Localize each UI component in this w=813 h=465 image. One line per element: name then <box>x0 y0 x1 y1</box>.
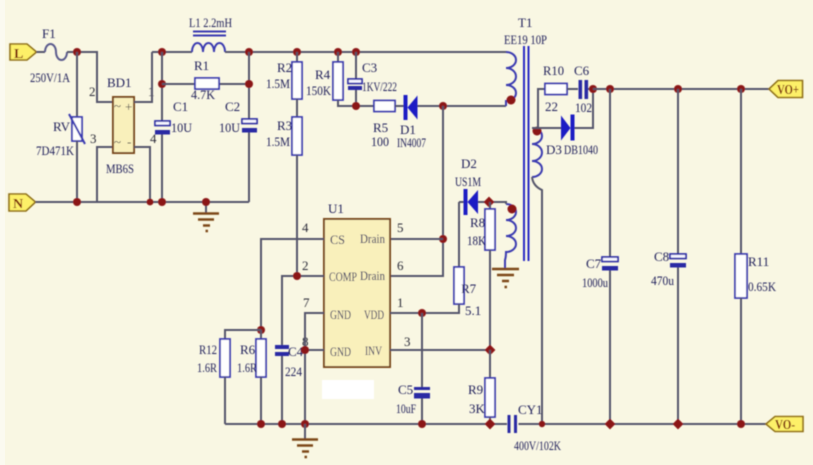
wire R11 lower <box>740 298 742 424</box>
svg-text:3K: 3K <box>469 401 486 416</box>
junction VDD/C5 <box>418 309 426 317</box>
wire top rail left <box>152 51 192 53</box>
capacitor C3 <box>348 52 397 106</box>
svg-text:2: 2 <box>89 84 96 99</box>
wire R8 upper <box>489 202 491 209</box>
junction C6/D3 <box>589 85 597 93</box>
svg-text:1.6R: 1.6R <box>197 360 217 375</box>
junction COMP/R3 <box>293 272 301 280</box>
svg-text:~: ~ <box>114 98 121 113</box>
ground control <box>292 424 318 457</box>
svg-text:18K: 18K <box>467 233 487 248</box>
svg-text:U1: U1 <box>328 201 344 216</box>
svg-text:R12: R12 <box>199 342 217 357</box>
wire D2 to aux <box>478 202 506 204</box>
resistor R8 <box>467 209 495 250</box>
junction C2/R1 <box>245 80 253 88</box>
pin number 1 <box>148 84 155 99</box>
transformer T1 labels <box>504 15 547 47</box>
junction INV/R9 <box>485 345 496 356</box>
wire C7 lower <box>609 271 611 425</box>
svg-text:1: 1 <box>397 295 404 310</box>
svg-text:470u: 470u <box>651 273 674 288</box>
capacitor C1 <box>155 99 193 135</box>
bridge BD1 <box>106 75 134 176</box>
junction rail/gnd <box>301 420 309 428</box>
chip U1 <box>324 201 390 367</box>
wire D1 to primary <box>418 105 507 107</box>
svg-text:N: N <box>13 197 23 212</box>
svg-text:US1M: US1M <box>455 174 481 189</box>
svg-text:4: 4 <box>302 220 309 235</box>
wire VO+ rail <box>593 88 769 90</box>
svg-text:3: 3 <box>90 131 97 146</box>
svg-text:INV: INV <box>365 343 382 358</box>
svg-text:0.65K: 0.65K <box>748 279 777 294</box>
transformer T1 primary winding <box>506 52 516 106</box>
junction rail/R9 <box>485 419 496 430</box>
svg-text:3: 3 <box>404 334 411 349</box>
port L <box>10 44 37 62</box>
svg-text:R1: R1 <box>194 58 209 73</box>
wire CS path <box>261 239 324 330</box>
pin number 3 <box>90 131 97 146</box>
svg-text:1KV/222: 1KV/222 <box>362 79 397 94</box>
svg-text:C5: C5 <box>398 382 413 397</box>
svg-text:C3: C3 <box>362 60 377 75</box>
wire C8 upper <box>677 89 679 254</box>
junction D2/R8 <box>484 197 495 208</box>
svg-text:IN4007: IN4007 <box>397 135 426 150</box>
junction rail/secondary <box>539 421 545 427</box>
junction rail/C3 <box>352 48 360 56</box>
wire C2 upper <box>248 52 250 119</box>
svg-text:EE19 10P: EE19 10P <box>504 32 547 47</box>
pin number 1 U1 <box>397 295 404 310</box>
wire BD1 pin3 <box>97 147 113 202</box>
wire R6 lower <box>260 377 262 424</box>
wire top rail mid <box>225 51 506 53</box>
resistor R9 <box>468 378 495 417</box>
junction drain node <box>439 102 447 110</box>
svg-text:L1 2.2mH: L1 2.2mH <box>189 15 232 30</box>
svg-text:4.7K: 4.7K <box>191 87 216 102</box>
resistor R10 <box>543 63 578 114</box>
ground primary input <box>193 202 219 231</box>
resistor R5 <box>371 101 404 150</box>
wire GND pin7 path <box>305 313 324 424</box>
varistor RV <box>36 114 85 158</box>
pin number 4 <box>150 131 157 146</box>
wire RV bottom <box>76 141 78 202</box>
svg-text:102: 102 <box>575 100 592 115</box>
resistor R2 <box>266 52 302 99</box>
wire snubber riser <box>538 89 545 128</box>
wire C5 upper <box>421 313 423 387</box>
svg-text:VDD: VDD <box>364 307 384 322</box>
svg-text:10uF: 10uF <box>396 401 416 416</box>
capacitor C8 <box>651 249 686 288</box>
junction rail/C7 <box>606 85 614 93</box>
capacitor C4 <box>275 344 304 379</box>
wire pin5 stub <box>390 238 443 240</box>
wire fuse to BD1 pin2 <box>67 52 113 102</box>
junction rail/R6 <box>257 420 265 428</box>
wire R7 to VDD <box>390 304 459 313</box>
resistor R3 <box>266 117 302 155</box>
junction drain pin5 <box>439 235 447 243</box>
svg-text:D2: D2 <box>461 156 477 171</box>
svg-text:Drain: Drain <box>360 231 385 246</box>
svg-text:R9: R9 <box>468 382 483 397</box>
svg-text:R11: R11 <box>748 254 769 269</box>
fuse F1 <box>30 26 71 85</box>
wire D3 to rail <box>575 89 594 128</box>
diode D2 <box>455 156 481 215</box>
svg-text:10U: 10U <box>219 120 241 135</box>
port N <box>9 194 36 212</box>
svg-text:R10: R10 <box>543 63 564 78</box>
wire R9 lower <box>489 417 491 424</box>
pin number 7 U1 <box>303 295 310 310</box>
transformer T1 secondary winding <box>532 128 542 177</box>
junction CS/R6 <box>257 326 265 334</box>
svg-text:224: 224 <box>285 364 302 379</box>
svg-text:C8: C8 <box>654 249 669 264</box>
wire N bottom row <box>36 201 250 203</box>
svg-text:F1: F1 <box>42 26 56 41</box>
wire secondary return <box>532 177 542 424</box>
wire C5 lower <box>421 399 423 425</box>
svg-text:7D471K: 7D471K <box>36 143 75 158</box>
wire bottom rail secondary <box>519 423 767 425</box>
svg-text:~: ~ <box>114 134 121 149</box>
junction rail2/R11 <box>737 420 745 428</box>
pin number 2 U1 <box>302 258 309 273</box>
pin number 6 U1 <box>397 258 404 273</box>
svg-text:BD1: BD1 <box>107 75 132 90</box>
svg-text:R5: R5 <box>373 120 388 135</box>
wire R7 riser <box>458 202 460 267</box>
wire D2 row left <box>459 201 464 203</box>
capacitor C6 <box>574 63 593 115</box>
svg-text:R7: R7 <box>461 281 477 296</box>
svg-text:+: + <box>125 99 132 114</box>
wire R12 lower <box>224 377 226 424</box>
wire C7 upper <box>609 89 611 257</box>
svg-text:D3: D3 <box>546 142 562 157</box>
wire bottom rail primary <box>225 423 507 425</box>
junction C3/snubber row <box>352 102 360 110</box>
junction rail/R11 <box>737 85 745 93</box>
svg-text:1.6R: 1.6R <box>237 360 257 375</box>
svg-text:R3: R3 <box>277 118 292 133</box>
pin number 3 U1 <box>404 334 411 349</box>
port VO- <box>766 417 803 434</box>
svg-text:VO+: VO+ <box>777 83 799 98</box>
port VO+ <box>769 81 803 99</box>
svg-text:C7: C7 <box>586 256 602 271</box>
resistor R4 <box>306 52 343 100</box>
transformer T1 aux winding <box>505 204 516 268</box>
wire C1 branch upper <box>161 52 163 121</box>
junction ground/bottom <box>202 198 210 206</box>
junction rail2/C7 <box>605 419 616 430</box>
pin number 5 U1 <box>397 220 404 235</box>
wire R9 upper <box>489 350 491 378</box>
svg-text:400V/102K: 400V/102K <box>514 438 561 453</box>
svg-text:CS: CS <box>330 232 345 247</box>
polarity dot aux <box>508 205 517 214</box>
wire COMP row <box>282 276 324 345</box>
capacitor C5 <box>396 382 430 416</box>
svg-text:1.5M: 1.5M <box>266 134 290 149</box>
inductor L1 <box>189 15 232 52</box>
pin number 2 <box>89 84 96 99</box>
polarity dot primary <box>507 96 516 105</box>
pin number 8 U1 <box>302 334 309 349</box>
svg-text:T1: T1 <box>518 15 532 30</box>
svg-text:C6: C6 <box>574 63 590 78</box>
resistor R6 <box>237 330 266 377</box>
wire BD1 pin4 drop <box>134 147 150 202</box>
wire drain vertical <box>390 106 443 276</box>
svg-text:C2: C2 <box>225 99 240 114</box>
svg-text:1.5M: 1.5M <box>266 76 290 91</box>
capacitor C7 <box>582 256 618 290</box>
svg-text:R8: R8 <box>470 215 485 230</box>
junction rail/C1 <box>158 48 166 56</box>
svg-text:6: 6 <box>397 258 404 273</box>
wire D3 row <box>532 127 561 129</box>
svg-text:5.1: 5.1 <box>465 303 481 318</box>
wire R4 bottom <box>338 100 374 106</box>
wire R3 to COMP <box>296 155 298 276</box>
white patch <box>322 380 374 399</box>
wire RV top <box>76 52 78 117</box>
wire R8 to INV <box>489 250 491 350</box>
capacitor C2 <box>219 99 257 135</box>
diode D1 <box>397 95 426 150</box>
wire C8 lower <box>677 268 679 425</box>
svg-text:10U: 10U <box>171 120 193 135</box>
wire BD1 pin1 riser <box>134 52 152 102</box>
svg-text:COMP: COMP <box>329 269 357 284</box>
diode D3 <box>546 115 598 158</box>
svg-text:5: 5 <box>397 220 404 235</box>
junction rail/R2 <box>293 48 301 56</box>
wire R11 upper <box>740 89 742 254</box>
svg-text:DB1040: DB1040 <box>564 142 598 157</box>
svg-text:Drain: Drain <box>360 268 385 283</box>
junction rail/R4 <box>334 48 342 56</box>
svg-text:GND: GND <box>330 344 351 359</box>
wire GND pin8 stub <box>305 349 324 351</box>
junction C1/R1 <box>158 80 166 88</box>
svg-text:22: 22 <box>545 99 558 114</box>
wire INV row <box>390 349 490 351</box>
resistor R12 <box>197 339 230 377</box>
svg-text:MB6S: MB6S <box>106 161 134 176</box>
svg-text:RV: RV <box>53 119 71 134</box>
svg-text:250V/1A: 250V/1A <box>30 70 71 85</box>
svg-text:150K: 150K <box>306 83 332 98</box>
svg-text:VO-: VO- <box>775 418 795 433</box>
wire C2 bottom <box>248 133 250 203</box>
svg-text:R6: R6 <box>240 342 256 357</box>
junction rail/C4 <box>278 420 286 428</box>
transformer T1 core <box>524 46 529 261</box>
svg-text:-: - <box>127 134 131 149</box>
junction C1/bottom <box>158 198 166 206</box>
polarity dot secondary <box>533 127 542 136</box>
junction N/RV <box>73 198 81 206</box>
svg-text:R2: R2 <box>277 60 292 75</box>
svg-text:CY1: CY1 <box>518 402 543 417</box>
svg-text:1000u: 1000u <box>582 275 608 290</box>
wire L to fuse <box>37 51 46 53</box>
wire R12 branch <box>225 330 261 339</box>
svg-text:100: 100 <box>371 134 389 149</box>
resistor R11 <box>735 254 777 298</box>
resistor R1 <box>162 58 249 102</box>
svg-text:7: 7 <box>303 295 310 310</box>
svg-text:L: L <box>14 47 23 62</box>
svg-text:2: 2 <box>302 258 309 273</box>
junction rail/C2 <box>245 48 253 56</box>
wire C1 bottom <box>161 135 163 203</box>
capacitor CY1 <box>508 402 562 453</box>
pin number 4 U1 <box>302 220 309 235</box>
resistor R7 <box>454 267 481 318</box>
junction rail/C5 <box>418 420 426 428</box>
junction rail2/C8 <box>673 419 684 430</box>
junction L/RV <box>73 48 81 56</box>
svg-text:GND: GND <box>330 307 351 322</box>
junction pin4/bottom <box>147 199 154 206</box>
junction pin8/gnd <box>301 346 309 354</box>
svg-text:R4: R4 <box>315 67 331 82</box>
svg-text:C1: C1 <box>173 99 188 114</box>
ground aux winding <box>492 269 519 287</box>
junction rail/C8 <box>674 85 682 93</box>
wire C4 lower <box>281 356 283 424</box>
wire R2-R3 <box>296 99 298 117</box>
